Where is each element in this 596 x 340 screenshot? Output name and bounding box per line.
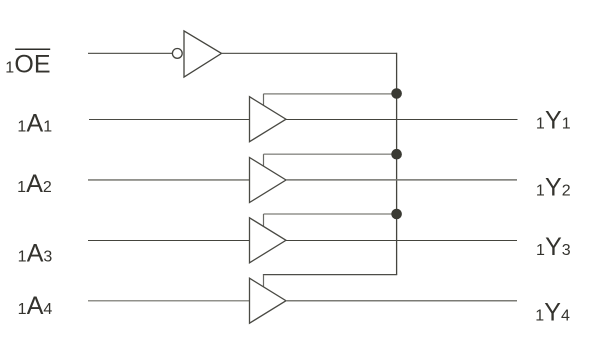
wire enable bus vertical xyxy=(396,53,398,275)
buffer G3 xyxy=(250,218,287,263)
inverter U1 bubble xyxy=(172,49,182,59)
net label 1A4 xyxy=(18,292,53,320)
svg-text:1: 1 xyxy=(43,119,52,136)
wire enable bus bottom horizontal xyxy=(263,274,397,276)
svg-text:1: 1 xyxy=(17,119,26,136)
wire enable row 3 xyxy=(264,213,397,215)
net label 1Y3 xyxy=(536,233,571,261)
svg-text:1: 1 xyxy=(5,60,14,77)
svg-text:A: A xyxy=(27,240,44,268)
svg-text:1: 1 xyxy=(535,307,544,324)
svg-text:3: 3 xyxy=(562,242,571,259)
junction dot row 1 xyxy=(391,88,402,99)
buffer G1 xyxy=(250,97,287,142)
inverter U1 xyxy=(184,31,222,77)
svg-text:4: 4 xyxy=(561,307,570,324)
wire 1OE input xyxy=(88,52,172,54)
svg-text:1: 1 xyxy=(536,242,545,259)
wire enable stub buffer 3 xyxy=(263,214,265,227)
wire 1A1 input xyxy=(89,119,250,121)
svg-text:1: 1 xyxy=(18,249,27,266)
net label 1A1 xyxy=(17,110,52,138)
svg-text:A: A xyxy=(27,292,44,320)
svg-text:1: 1 xyxy=(17,179,26,196)
wire 1A3 input xyxy=(88,240,250,242)
wire 1Y4 output xyxy=(286,300,517,302)
net label 1A3 xyxy=(18,240,53,268)
wire 1Y2 output xyxy=(286,179,517,181)
svg-text:1: 1 xyxy=(562,115,571,132)
junction dot row 2 xyxy=(391,149,402,160)
wire 1A4 input xyxy=(88,300,250,302)
svg-text:1: 1 xyxy=(536,182,545,199)
wire inverter output to bus xyxy=(222,52,397,54)
wire enable stub buffer 2 xyxy=(263,154,265,166)
buffer G4 xyxy=(250,278,287,323)
net label 1Y2 xyxy=(536,173,571,201)
svg-text:A: A xyxy=(27,110,44,138)
svg-text:Y: Y xyxy=(545,106,562,134)
svg-text:OE: OE xyxy=(14,51,50,79)
svg-text:3: 3 xyxy=(43,249,52,266)
svg-text:1: 1 xyxy=(18,301,27,318)
buffer G2 xyxy=(250,158,287,203)
wire 1A2 input xyxy=(88,179,250,181)
svg-text:Y: Y xyxy=(545,173,562,201)
net label 1OE xyxy=(5,49,50,79)
svg-text:Y: Y xyxy=(545,233,562,261)
net label 1Y4 xyxy=(535,298,570,326)
wire enable row 1 xyxy=(264,93,397,95)
junction dot row 3 xyxy=(391,209,402,220)
svg-text:2: 2 xyxy=(43,179,52,196)
wire 1Y3 output xyxy=(286,240,517,242)
wire enable stub buffer 1 xyxy=(263,94,265,106)
svg-text:2: 2 xyxy=(562,182,571,199)
net label 1Y1 xyxy=(536,106,571,134)
net label 1A2 xyxy=(17,170,52,198)
svg-text:1: 1 xyxy=(536,115,545,132)
wire enable stub buffer 4 xyxy=(263,275,265,288)
svg-text:A: A xyxy=(26,170,43,198)
wire 1Y1 output xyxy=(286,119,518,121)
svg-text:Y: Y xyxy=(544,298,561,326)
svg-text:4: 4 xyxy=(43,301,52,318)
wire enable row 2 xyxy=(264,153,397,155)
